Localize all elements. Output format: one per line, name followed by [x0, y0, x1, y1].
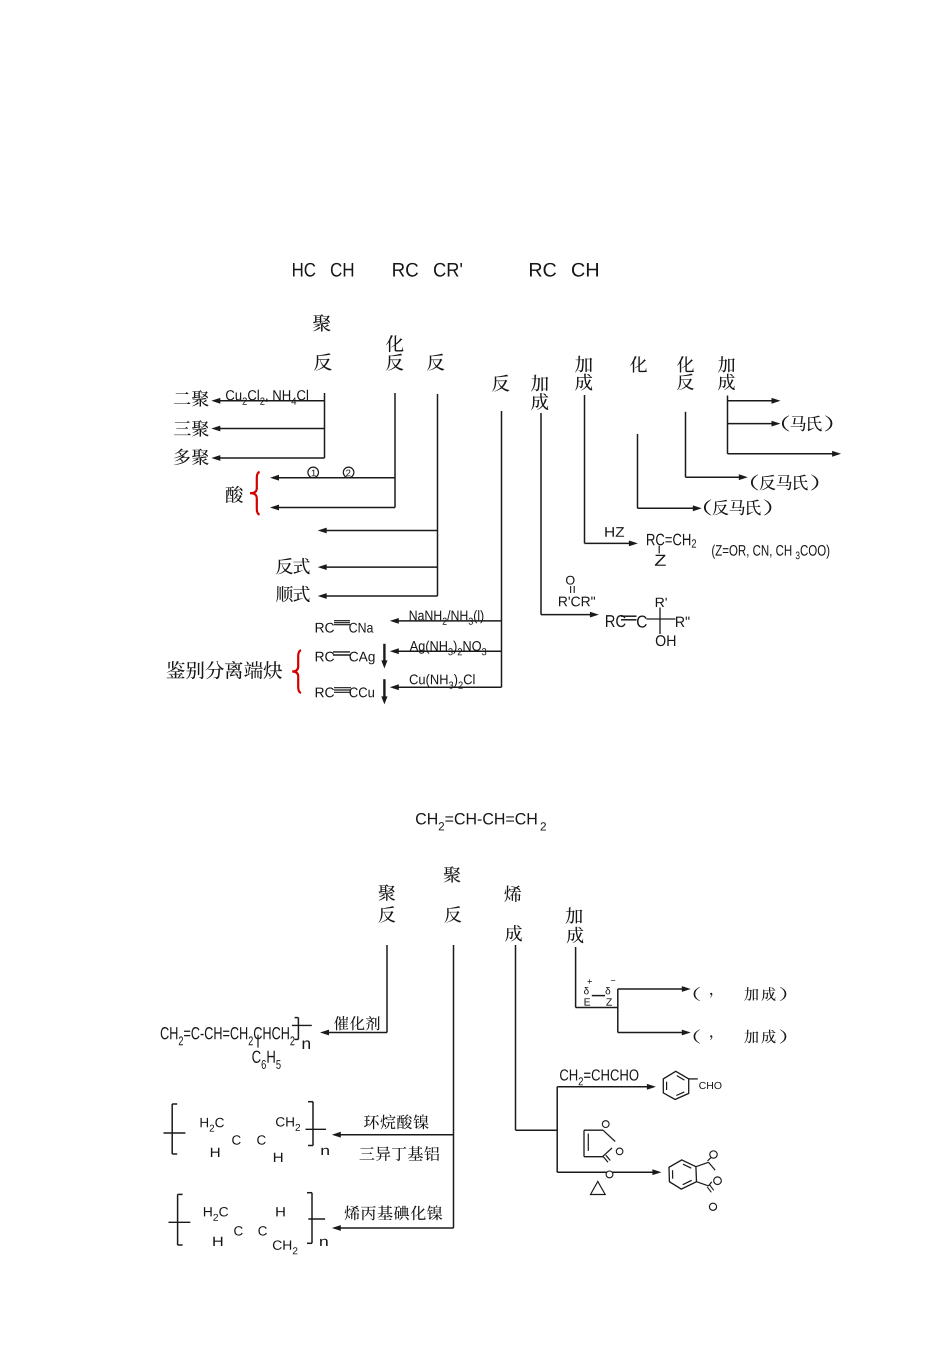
formula trans CH2 — [276, 1117, 300, 1131]
formula RC#CH a — [530, 263, 556, 277]
wire s2col3 vertical + corner — [516, 945, 558, 1130]
label col1 反 — [314, 353, 332, 370]
label col4 反 — [492, 375, 509, 392]
label 酸 — [226, 486, 243, 503]
label NaNH2/NH3(l) — [410, 610, 484, 625]
formula HC#CH b — [331, 263, 353, 277]
arrow NaNH2 — [390, 618, 502, 624]
wire s2 branch vertical — [617, 989, 619, 1033]
wire s2 diels branch vertical — [556, 1087, 558, 1172]
formula trans C1 — [232, 1135, 241, 1144]
wire col2 vertical — [394, 393, 396, 508]
label col8 化 — [677, 356, 694, 373]
label Cu2Cl2 NH4Cl — [226, 390, 308, 405]
arrow acid 2 — [270, 505, 395, 511]
label 三聚 — [174, 420, 209, 437]
label n trans — [321, 1148, 329, 1155]
label HZ — [605, 527, 624, 537]
formula trans H left — [211, 1148, 219, 1157]
label Ag(NH3)2NO3 — [410, 641, 487, 656]
formula RCCCu CCu — [350, 687, 375, 697]
wire col4 vertical — [501, 411, 503, 687]
structure cis bracket left — [169, 1194, 191, 1245]
label col9 加 — [718, 356, 735, 372]
arrow hydration — [318, 528, 438, 534]
formula cis H2C — [204, 1207, 228, 1221]
formula butadiene title sub2 — [541, 822, 546, 830]
arrow markovnikov long — [728, 451, 842, 457]
label （马氏） — [782, 415, 832, 431]
formula RCCCu RC — [316, 687, 334, 697]
label 二聚 — [174, 390, 209, 407]
formula RC#CR' b — [434, 263, 462, 277]
formula product R' — [656, 598, 667, 607]
label s2col2 聚 — [444, 866, 461, 883]
formula trans H right — [274, 1153, 282, 1162]
label n polymer1 — [303, 1040, 310, 1049]
structure cis bracket right — [307, 1193, 325, 1244]
label col7 化 — [630, 356, 647, 373]
arrow 反式 — [318, 564, 438, 570]
structure diels alder product — [669, 1151, 721, 1211]
label 烯丙基碘化镍 — [345, 1205, 443, 1220]
wire col6 vertical + arrow HZ addition — [585, 395, 638, 546]
arrow to 二聚 — [211, 398, 324, 404]
label （，加成）1 — [694, 987, 787, 1001]
formula product OH — [656, 635, 675, 646]
arrow trans polybutadiene — [332, 1132, 454, 1138]
label col1 聚 — [313, 314, 331, 331]
label s2col4 成 — [567, 927, 584, 944]
label 多聚 — [174, 449, 209, 466]
label col6 加 — [575, 356, 592, 373]
formula cis C1 — [234, 1226, 243, 1235]
formula polymer1 — [161, 1027, 295, 1045]
label Z=OR... — [712, 545, 829, 560]
label （反马氏）lower — [704, 499, 771, 515]
brace red 端炔 — [292, 650, 301, 693]
bond triple CCu — [334, 688, 351, 693]
arrow to 三聚 — [211, 426, 324, 432]
label s2col3 成 — [505, 925, 522, 942]
label 三异丁基铝 — [360, 1146, 440, 1161]
label CH2=CHCHO — [560, 1069, 638, 1085]
arrow 1 2 addition — [618, 986, 691, 992]
formula RC=CH2 — [647, 534, 696, 548]
label col5 成 — [531, 393, 548, 410]
bond C-Z — [658, 546, 660, 554]
label s2col1 聚 — [378, 884, 395, 901]
arrow down precipitate Cu — [381, 679, 387, 704]
arrow down precipitate Ag — [381, 644, 387, 669]
label 环烷酸镍 — [364, 1114, 429, 1129]
E label — [585, 998, 591, 1005]
bond double CAg — [333, 652, 350, 655]
wire col5 vertical + arrow ketone addition — [541, 413, 599, 618]
label 反式 — [276, 558, 310, 575]
circled 1 — [308, 467, 319, 478]
label n cis — [320, 1239, 328, 1246]
label col6 成 — [575, 374, 592, 391]
wire col8 vertical + arrow antiM upper — [686, 412, 748, 480]
digit 1 — [312, 470, 316, 477]
delta minus — [605, 987, 610, 994]
formula cis CH2 — [273, 1240, 298, 1254]
formula Z — [655, 555, 666, 566]
label col2 化 — [386, 335, 403, 352]
structure trans bracket right — [306, 1102, 327, 1146]
label s2col3 烯 — [504, 885, 521, 902]
arrow markovnikov blank — [728, 398, 781, 404]
formula RCCAg RC — [316, 652, 334, 662]
formula cis H right — [276, 1207, 284, 1216]
wire s2col1 vertical + arrow 催化剂 — [320, 945, 387, 1035]
label （，加成）2 — [694, 1029, 787, 1043]
carbonyl O — [566, 576, 575, 585]
formula trans C2 — [257, 1135, 266, 1144]
arrow acid 1 — [270, 475, 395, 481]
plus sup — [587, 979, 591, 983]
arrow markovnikov — [728, 421, 781, 427]
bond lines product — [647, 608, 676, 635]
arrow 1 4 addition — [618, 1030, 691, 1036]
wire col1 vertical — [324, 393, 326, 458]
carbonyl double lines — [571, 586, 575, 593]
formula HC#CH a — [293, 263, 315, 277]
wire s2col4 vertical + corner — [576, 947, 618, 1008]
brace red 酸 — [250, 472, 260, 515]
Z label — [606, 998, 612, 1005]
structure maleic anhydride — [584, 1121, 623, 1178]
formula product RC — [606, 615, 626, 627]
formula product R2 — [676, 617, 689, 627]
structure trans bracket left — [164, 1104, 186, 1154]
minus sup — [611, 979, 615, 982]
arrow AgNO3 — [390, 648, 502, 654]
label delta heat — [591, 1182, 606, 1195]
label CHO benzaldehyde — [699, 1082, 721, 1089]
label 鉴别分离端炔 — [167, 661, 283, 679]
label Cu(NH3)2Cl — [410, 674, 475, 689]
delta plus — [584, 987, 589, 994]
formula RCCNa CNa — [349, 623, 373, 633]
label s2col4 加 — [566, 907, 583, 923]
bond triple CNa — [334, 621, 350, 625]
formula trans H2C — [200, 1118, 223, 1132]
wire s2col2 vertical — [453, 945, 455, 1228]
structure benzaldehyde — [663, 1071, 698, 1099]
label col5 加 — [531, 375, 548, 392]
formula product C — [637, 615, 647, 627]
label col3 反 — [427, 354, 444, 371]
label col8 反 — [677, 374, 694, 391]
formula RC#CR' a — [393, 263, 418, 277]
label 催化剂 — [334, 1016, 380, 1030]
circled 2 — [343, 467, 354, 478]
arrow CuCl — [390, 684, 502, 690]
arrow 顺式 — [318, 593, 438, 599]
label col2 反 — [386, 354, 403, 371]
formula RCCNa RC — [316, 623, 334, 633]
formula C6H5 — [252, 1051, 280, 1069]
wire col9 vertical — [727, 396, 729, 454]
arrow to 多聚 — [211, 455, 324, 461]
arrow diels alder — [557, 1169, 661, 1175]
label s2col1 反 — [379, 906, 396, 923]
formula RCCAg CAg — [350, 652, 375, 665]
arrow to benzaldehyde — [557, 1084, 656, 1090]
label s2col2 反 — [445, 906, 462, 923]
label （反马氏）upper — [751, 474, 818, 490]
polymer1 end bracket — [292, 1018, 312, 1040]
bond double product — [621, 616, 637, 620]
label R'CR" — [559, 597, 595, 607]
bond to C6H5 — [257, 1035, 259, 1048]
digit 2 — [346, 470, 350, 477]
formula butadiene title — [416, 813, 536, 830]
formula cis C2 — [258, 1226, 267, 1235]
formula cis H left — [213, 1237, 222, 1246]
arrow cis polybutadiene — [332, 1225, 454, 1231]
wire col7 vertical + arrow antiM lower — [638, 434, 702, 511]
label col9 成 — [718, 374, 735, 391]
wire col3 vertical — [437, 394, 439, 596]
formula RC#CH b — [572, 263, 598, 277]
label 顺式 — [276, 586, 310, 603]
